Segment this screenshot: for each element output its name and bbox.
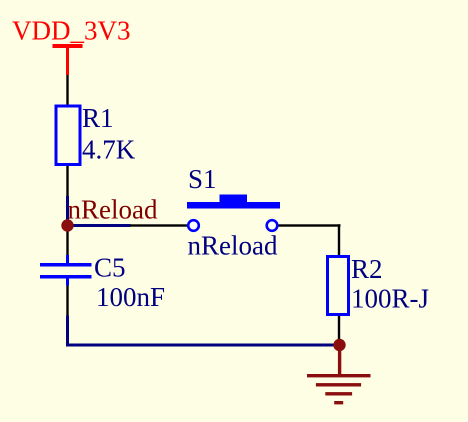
- svg-text:nReload: nReload: [188, 231, 278, 261]
- svg-text:R2: R2: [351, 254, 383, 284]
- svg-text:C5: C5: [94, 253, 126, 283]
- svg-text:nReload: nReload: [68, 195, 158, 225]
- svg-text:100nF: 100nF: [96, 282, 165, 312]
- svg-text:VDD_3V3: VDD_3V3: [12, 16, 131, 46]
- svg-text:S1: S1: [188, 164, 217, 194]
- svg-text:4.7K: 4.7K: [82, 135, 136, 165]
- svg-text:R1: R1: [82, 103, 114, 133]
- svg-text:100R-J: 100R-J: [351, 284, 429, 314]
